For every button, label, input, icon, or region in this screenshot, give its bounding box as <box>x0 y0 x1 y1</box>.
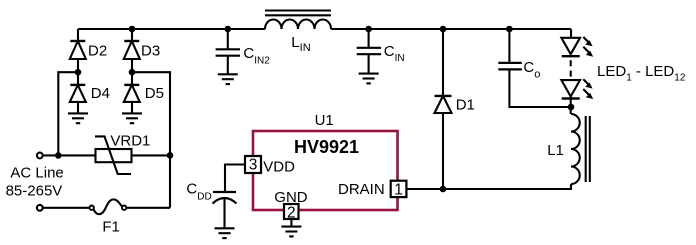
wire: top rail <box>78 28 265 30</box>
svg-text:AC Line: AC Line <box>10 165 63 182</box>
svg-text:2: 2 <box>287 205 296 222</box>
svg-text:3: 3 <box>249 157 258 174</box>
wire: D3 top branch <box>131 29 133 41</box>
svg-text:D1: D1 <box>456 97 475 114</box>
wire: C_DD bottom lead <box>223 199 225 229</box>
wire: C_O top lead <box>508 29 510 63</box>
wire: DRAIN pin to D1/L1 <box>406 188 443 190</box>
svg-text:85-265V: 85-265V <box>6 183 63 200</box>
wire: GND pin to ground <box>290 219 292 227</box>
svg-text:HV9921: HV9921 <box>294 137 359 157</box>
node: C_O rail junction <box>506 26 513 33</box>
node: left bridge junction on AC row <box>55 152 62 159</box>
pin 2 box <box>284 204 299 219</box>
svg-text:VDD: VDD <box>263 158 295 175</box>
diode D1 <box>435 96 452 113</box>
ground (below D5) <box>122 113 142 123</box>
wire: C_IN top lead <box>368 29 370 48</box>
svg-text:LIN: LIN <box>291 34 310 54</box>
wire: D3/D5 junction right and down to fuse row <box>132 72 170 208</box>
capacitor C_IN2 <box>216 49 240 55</box>
LED2 emission arrows <box>583 79 593 99</box>
svg-text:D3: D3 <box>141 43 160 60</box>
node: D3/D5 junction <box>129 69 136 76</box>
diode D4 <box>70 85 86 102</box>
node: rail/D3 junction <box>129 26 136 33</box>
ground (below C_IN2) <box>218 74 238 84</box>
wire: VDD lead to C_DD <box>225 165 245 193</box>
LED LED1 <box>561 38 580 56</box>
node: right bus junction on AC row <box>167 152 174 159</box>
wire: D4 to ground <box>77 102 79 114</box>
pin 1 box <box>391 181 407 197</box>
svg-text:VRD1: VRD1 <box>110 133 150 150</box>
svg-text:Co: Co <box>523 59 540 80</box>
terminal: AC line top <box>37 153 43 159</box>
inductor L_IN core bars <box>265 9 331 11</box>
LED1 emission arrows <box>583 37 593 57</box>
wire: AC line input row <box>43 154 96 156</box>
diode D5 <box>124 85 140 102</box>
ground (below D4) <box>68 113 88 123</box>
inductor L_IN coil <box>265 20 331 30</box>
wire: C_O bottom lead to LED/L1 node <box>509 69 571 107</box>
svg-text:GND: GND <box>274 189 308 206</box>
svg-text:L1: L1 <box>547 142 564 159</box>
svg-text:1: 1 <box>394 182 403 199</box>
wire: LED2 to node <box>570 99 572 115</box>
svg-text:CIN2: CIN2 <box>243 45 270 67</box>
svg-text:D4: D4 <box>91 85 110 102</box>
svg-text:DRAIN: DRAIN <box>338 181 385 198</box>
wire: C_IN2 bottom lead <box>227 56 229 75</box>
node: D2/D4 junction <box>75 69 82 76</box>
wire: D5 to ground <box>131 102 133 114</box>
inductor L1 coil <box>571 114 580 184</box>
node: C_IN2 rail junction <box>225 26 232 33</box>
wire: D1 bottom lead <box>442 113 444 189</box>
ground (below C_IN) <box>359 74 379 84</box>
svg-text:LED1 - LED12: LED1 - LED12 <box>597 63 686 83</box>
wire: fuse to right bus <box>127 207 171 209</box>
ground (below pin 2) <box>281 227 301 237</box>
capacitor C_O <box>498 63 522 70</box>
node: D1 rail junction <box>440 26 447 33</box>
pin 3 box <box>245 156 261 173</box>
capacitor C_IN <box>357 48 381 54</box>
LED LED2 <box>561 80 580 98</box>
svg-text:D5: D5 <box>145 85 164 102</box>
wire: AC bottom to fuse <box>43 207 90 209</box>
node: D1/drain junction <box>440 186 447 193</box>
svg-text:U1: U1 <box>315 112 334 129</box>
op-amp U1 body (HV9921) <box>253 131 398 210</box>
inductor L1 core bars <box>585 116 587 182</box>
wire: C_IN bottom lead <box>368 54 370 73</box>
wire: C_IN2 top lead <box>227 29 229 49</box>
varistor VRD1 body <box>96 149 132 162</box>
wire: dashed link LED1 to LED2 <box>570 60 572 76</box>
svg-text:D2: D2 <box>88 43 107 60</box>
terminal: AC line bottom <box>37 205 43 211</box>
svg-text:CDD: CDD <box>186 181 211 203</box>
diode D2 <box>70 41 86 59</box>
wire: VRD1 to right bus <box>132 154 171 156</box>
capacitor C_DD <box>213 192 237 204</box>
node: C_IN rail junction <box>365 26 372 33</box>
svg-text:CIN: CIN <box>384 43 405 64</box>
svg-text:F1: F1 <box>102 218 120 235</box>
wire: L1 bottom to drain rail <box>406 184 571 189</box>
node: LED/L1/C_O junction <box>568 104 575 111</box>
wire: D3 to D5 <box>131 59 133 85</box>
wire: D1 top lead <box>442 29 444 96</box>
wire: rail corner down to LED string <box>570 29 572 38</box>
wire: D2 top branch <box>77 29 79 41</box>
diode D3 <box>124 41 140 59</box>
ground (below C_DD) <box>215 228 235 238</box>
varistor VRD1 strike-through <box>95 136 131 174</box>
wire: D2/D4 junction left and down to AC line <box>58 72 78 155</box>
wire: D2 to D4 <box>77 59 79 85</box>
fuse F1 <box>90 199 127 214</box>
